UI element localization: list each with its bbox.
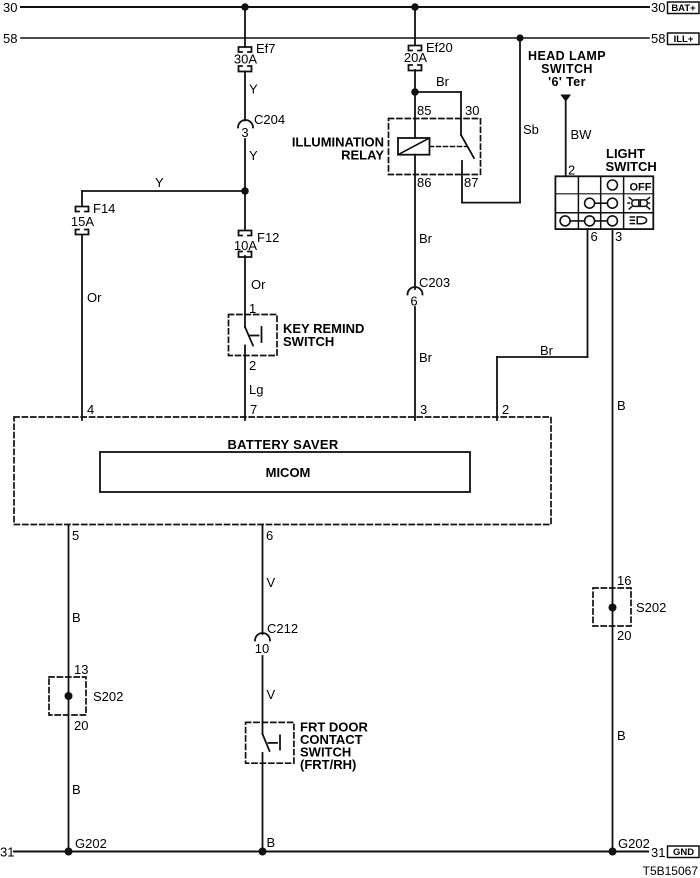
svg-text:Y: Y (249, 148, 258, 163)
svg-text:'6' Ter: '6' Ter (548, 75, 586, 89)
svg-text:Br: Br (540, 343, 554, 358)
connector C204 pin 3 (238, 112, 285, 140)
svg-text:RELAY: RELAY (341, 148, 384, 163)
svg-text:S202: S202 (93, 689, 123, 704)
svg-text:87: 87 (464, 175, 478, 190)
front door contact switch contacts (263, 722, 281, 751)
svg-text:7: 7 (250, 402, 257, 417)
svg-text:3: 3 (241, 125, 248, 140)
wire branch to F14, label Y (82, 175, 245, 206)
svg-text:Br: Br (419, 231, 433, 246)
svg-text:V: V (267, 687, 276, 702)
connector C212 pin 10 (255, 621, 298, 656)
light switch pin 6 and 3 labels (591, 229, 623, 244)
svg-text:B: B (72, 610, 81, 625)
svg-text:S202: S202 (636, 600, 666, 615)
svg-text:F14: F14 (93, 201, 115, 216)
junction on bus 30 at x=245 (241, 3, 249, 11)
key remind switch box (229, 315, 365, 356)
svg-text:4: 4 (87, 402, 94, 417)
junction node at (415,92) label Br (411, 74, 449, 96)
wire C204 to junction, label Y (245, 139, 258, 191)
light switch box (555, 176, 653, 229)
svg-text:3: 3 (420, 402, 427, 417)
head lamp switch label (528, 49, 606, 89)
svg-text:58: 58 (3, 31, 17, 46)
front door contact switch box (246, 720, 369, 773)
wire relay pin 86 down, label Br (415, 155, 433, 289)
light switch label (606, 146, 657, 174)
wire F12 to key remind switch, label Or, pin 1 (245, 256, 266, 316)
svg-text:16: 16 (617, 573, 631, 588)
svg-text:15A: 15A (71, 214, 94, 229)
svg-text:T5B15067: T5B15067 (643, 864, 699, 878)
wire F14 to battery saver pin 4, label Or (82, 235, 102, 420)
battery saver pin 6 label (266, 528, 273, 543)
wire S202 to G202, label B (617, 728, 650, 851)
node 30 bus BAT+ (3, 0, 699, 15)
svg-text:ILL+: ILL+ (674, 34, 694, 45)
fuse Ef20 20A (404, 40, 453, 71)
svg-text:V: V (267, 575, 276, 590)
wire key remind pin 2 to battery saver pin 7, label Lg (245, 346, 263, 421)
wire battery saver pin 6 down, label V (263, 525, 276, 635)
svg-text:(FRT/RH): (FRT/RH) (300, 757, 356, 772)
svg-text:Y: Y (249, 82, 258, 97)
svg-text:30: 30 (651, 0, 665, 15)
ground junction G202 middle (259, 848, 267, 856)
connector C203 pin 6 (408, 275, 451, 309)
svg-text:Br: Br (419, 350, 433, 365)
svg-text:20: 20 (617, 628, 631, 643)
svg-text:31: 31 (651, 845, 665, 860)
svg-text:C204: C204 (254, 112, 285, 127)
light switch row OFF: contact circle and label (607, 180, 651, 194)
wire head lamp switch to light switch pin 2, label BW (566, 102, 592, 178)
key remind switch contacts (245, 315, 262, 346)
svg-text:2: 2 (249, 358, 256, 373)
svg-text:F12: F12 (257, 230, 279, 245)
svg-text:B: B (267, 835, 276, 850)
svg-text:20A: 20A (404, 50, 427, 65)
junction on bus 30 at x=415 (411, 3, 419, 11)
battery saver pin 5 label (72, 528, 79, 543)
junction node at (245,191) (241, 187, 249, 195)
svg-text:G202: G202 (75, 836, 107, 851)
battery saver box (14, 417, 551, 525)
svg-text:SWITCH: SWITCH (541, 62, 593, 76)
svg-text:10: 10 (255, 641, 269, 656)
fuse F12 10A (234, 191, 279, 257)
light switch row head: contacts (560, 216, 617, 226)
relay switch blade (461, 135, 474, 158)
head lamp switch arrow (560, 95, 571, 102)
fuse F14 15A (71, 201, 115, 235)
svg-text:10A: 10A (234, 238, 257, 253)
svg-text:2: 2 (502, 402, 509, 417)
svg-text:B: B (617, 728, 626, 743)
wire Ef7 to C204, label Y (245, 72, 258, 121)
wire C212 to door switch, label V (263, 656, 276, 722)
svg-text:BATTERY SAVER: BATTERY SAVER (227, 437, 338, 452)
svg-text:BAT+: BAT+ (671, 3, 696, 14)
wire junction to relay contact 30 (415, 92, 461, 135)
svg-text:3: 3 (615, 229, 622, 244)
head lamp icon (630, 217, 646, 224)
svg-text:HEAD LAMP: HEAD LAMP (528, 49, 606, 63)
relay pin labels 85 and 30 (417, 103, 479, 118)
svg-text:30: 30 (465, 103, 479, 118)
park lamp icon (628, 198, 650, 209)
wire Ef20 down to relay coil (414, 70, 416, 138)
relay coil (398, 138, 430, 155)
svg-text:Or: Or (251, 277, 266, 292)
wire door switch to G202, label B (263, 753, 276, 852)
micom box U1 (100, 452, 470, 492)
svg-text:B: B (617, 398, 626, 413)
svg-text:Or: Or (87, 290, 102, 305)
wire bus30 to fuse Ef20 (414, 7, 416, 45)
svg-text:20: 20 (74, 718, 88, 733)
svg-text:SWITCH: SWITCH (606, 159, 657, 174)
wire C203 to battery saver pin 3, label Br (415, 307, 433, 420)
svg-text:Y: Y (155, 175, 164, 190)
svg-text:Sb: Sb (523, 122, 539, 137)
relay linkage dashed (430, 146, 467, 148)
svg-text:G202: G202 (618, 836, 650, 851)
svg-text:SWITCH: SWITCH (283, 334, 334, 349)
wire bus30 to fuse Ef7 (244, 7, 246, 47)
ground junction G202 left (65, 848, 73, 856)
splice S202 right, pins 16/20 (593, 573, 666, 643)
svg-text:86: 86 (417, 175, 431, 190)
wire S202 left to G202, label B (72, 782, 107, 851)
wire light switch pin 6 to battery saver pin 2, label Br (497, 229, 588, 420)
svg-text:B: B (72, 782, 81, 797)
wire light switch pin 3 down, label B (613, 229, 626, 851)
ground junction G202 right (609, 848, 617, 856)
svg-text:Ef20: Ef20 (426, 40, 453, 55)
illumination relay box (292, 119, 481, 175)
svg-text:GND: GND (673, 847, 694, 858)
node 31 bus GND (0, 845, 699, 861)
svg-text:Lg: Lg (249, 382, 263, 397)
svg-text:6: 6 (266, 528, 273, 543)
svg-text:OFF: OFF (630, 182, 652, 194)
svg-text:6: 6 (591, 229, 598, 244)
relay pin labels 86 and 87 (417, 175, 478, 190)
svg-text:C212: C212 (267, 621, 298, 636)
svg-text:5: 5 (72, 528, 79, 543)
light switch row park: contacts (585, 198, 618, 208)
svg-text:6: 6 (410, 294, 417, 309)
svg-text:85: 85 (417, 103, 431, 118)
svg-text:BW: BW (571, 127, 593, 142)
svg-text:Br: Br (436, 74, 450, 89)
wire relay pin 87 to bus 58, label Sb (462, 38, 539, 203)
svg-text:31: 31 (0, 845, 14, 860)
svg-text:C203: C203 (419, 275, 450, 290)
svg-text:30: 30 (3, 0, 17, 15)
node 58 bus ILL+ (3, 31, 699, 46)
svg-text:13: 13 (74, 662, 88, 677)
junction on bus 58 at x=520 (516, 34, 523, 41)
svg-text:MICOM: MICOM (266, 465, 311, 480)
svg-text:2: 2 (568, 163, 575, 178)
svg-text:Ef7: Ef7 (256, 41, 276, 56)
diagram id T5B15067 (643, 864, 699, 878)
svg-text:30A: 30A (234, 52, 257, 67)
splice S202 left, pins 13/20 (49, 662, 123, 733)
wire battery saver pin 5 down, label B (69, 525, 81, 852)
fuse Ef7 30A (234, 41, 276, 72)
svg-text:58: 58 (651, 31, 665, 46)
